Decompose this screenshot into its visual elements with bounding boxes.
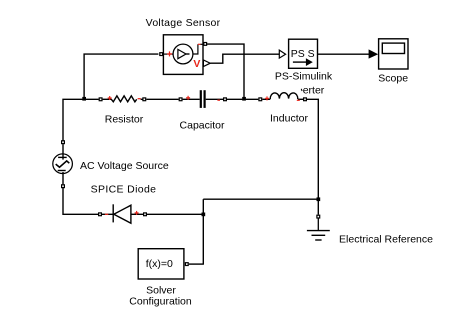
svg-text:Scope: Scope — [378, 73, 408, 85]
block U1 Voltage Sensor — [163, 35, 203, 75]
port: sensor top-right (-) — [204, 43, 207, 46]
wire: Resistor right port to Capacitor left port — [146, 98, 178, 100]
wire: Inductor right port right then down to ground port — [307, 99, 318, 214]
junction node C (ground tee) — [317, 197, 321, 201]
pin label: sensor red plus — [167, 51, 172, 56]
wire: Voltage Sensor V port to PS-Simulink Converter input — [210, 54, 279, 63]
svg-text:erter: erter — [303, 85, 325, 97]
port: solver configuration right — [185, 263, 188, 266]
svg-text:Electrical Reference: Electrical Reference — [339, 233, 433, 245]
svg-text:PS S: PS S — [291, 48, 315, 60]
wire: AC source bottom port down and right to SPICE Diode left port — [63, 186, 98, 214]
port: sensor left (+) — [160, 53, 163, 56]
source V1 AC Voltage Source — [53, 144, 73, 184]
label: clipped v remnant of Converter — [300, 89, 303, 91]
pin label: resistor red plus — [108, 96, 112, 100]
junction node E (diode/solver tee) — [202, 213, 206, 217]
wire: horizontal return wire from node D to node C — [203, 198, 318, 200]
junction node A (resistor branch) — [82, 97, 86, 101]
svg-text:Voltage Sensor: Voltage Sensor — [146, 17, 221, 29]
diode D1 SPICE Diode — [102, 204, 143, 223]
port: inductor left — [259, 98, 262, 101]
pin label: inductor red plus — [265, 96, 269, 100]
port: AC source top — [62, 141, 65, 144]
svg-text:f(x)=0: f(x)=0 — [146, 258, 173, 270]
wire: vertical from node D down to solver corner — [202, 199, 204, 264]
wire: Solver Configuration port to corner — [189, 263, 204, 265]
svg-text:Configuration: Configuration — [129, 295, 192, 307]
port: diode left (cathode) — [99, 213, 102, 216]
capacitor C1 — [183, 90, 224, 108]
port: inductor right — [304, 98, 307, 101]
wire: SPICE Diode right port to node E — [147, 213, 203, 215]
wire: branch from node A up to Voltage Sensor left port — [84, 54, 158, 99]
block U3 Scope — [379, 39, 408, 69]
junction node B (sensor branch) — [242, 97, 246, 101]
svg-text:Capacitor: Capacitor — [180, 119, 225, 131]
svg-text:SPICE Diode: SPICE Diode — [91, 184, 157, 196]
pin label: diode red plus — [135, 211, 139, 215]
ground: Electrical Reference symbol — [307, 219, 330, 241]
resistor R1 — [103, 96, 143, 102]
svg-text:Inductor: Inductor — [270, 112, 308, 124]
port: converter PS input arrow — [279, 50, 285, 58]
port: resistor left — [99, 98, 102, 101]
pin label: capacitor red plus — [186, 96, 190, 100]
port: capacitor right — [224, 98, 227, 101]
port: AC source bottom — [62, 185, 65, 188]
wire: PS-Simulink Converter output to Scope input — [318, 53, 370, 55]
inductor L1 — [262, 93, 303, 101]
port: diode right (anode) — [144, 213, 147, 216]
port: sensor V PS output — [203, 60, 210, 67]
block U2 PS-Simulink Converter — [289, 39, 318, 68]
block U4 Solver Configuration — [138, 249, 184, 279]
pin: scope input arrowhead — [369, 49, 379, 58]
wire: AC source top port up and right to Resistor left port — [63, 99, 99, 144]
svg-text:AC Voltage Source: AC Voltage Source — [80, 160, 169, 172]
port: resistor right — [143, 98, 146, 101]
svg-text:Resistor: Resistor — [105, 114, 144, 126]
svg-text:V: V — [193, 58, 200, 70]
port: capacitor left — [179, 98, 182, 101]
wire: node B up and left to Voltage Sensor top-right port — [207, 44, 244, 99]
port: electrical reference — [317, 215, 320, 218]
svg-text:PS-Simulink: PS-Simulink — [275, 71, 333, 83]
wire: Capacitor right port to Inductor left port through node B — [227, 98, 258, 100]
